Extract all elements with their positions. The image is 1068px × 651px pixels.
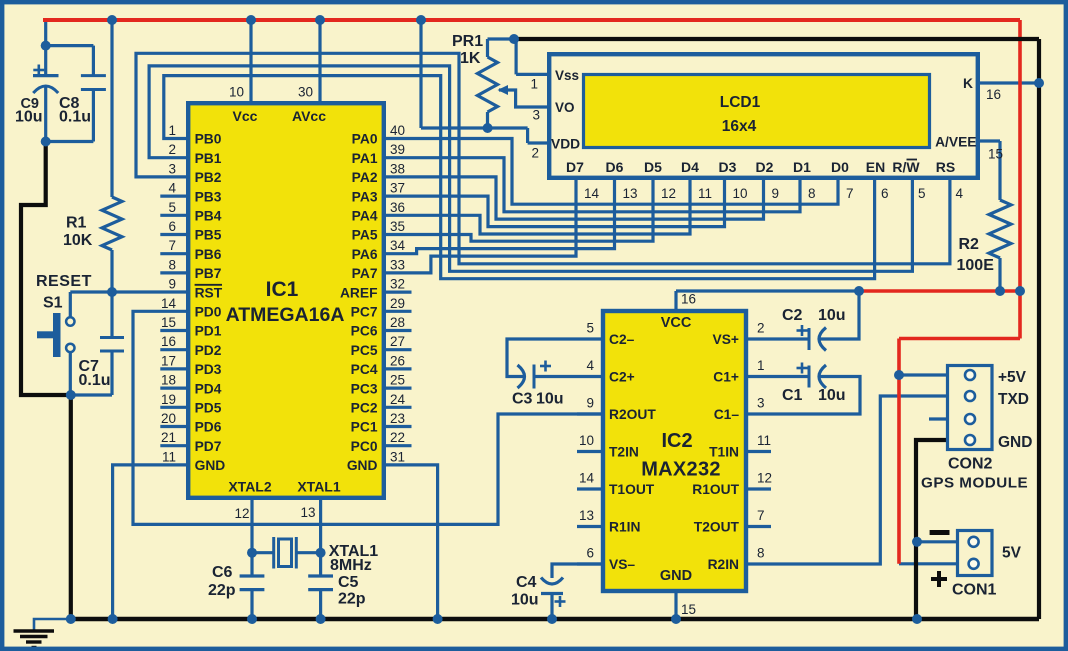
svg-text:16: 16 (161, 334, 176, 349)
svg-text:10u: 10u (818, 387, 846, 404)
svg-text:22p: 22p (208, 582, 236, 599)
svg-text:RS: RS (936, 159, 955, 175)
svg-text:11: 11 (698, 186, 712, 201)
svg-text:8MHz: 8MHz (330, 557, 372, 574)
svg-text:PA4: PA4 (352, 209, 378, 224)
svg-text:T2OUT: T2OUT (694, 520, 740, 535)
svg-text:PB7: PB7 (195, 266, 222, 281)
svg-text:10u: 10u (15, 109, 43, 126)
svg-text:10: 10 (733, 186, 748, 201)
svg-text:1: 1 (757, 358, 765, 373)
svg-text:6: 6 (168, 219, 176, 234)
svg-text:CON2: CON2 (948, 456, 993, 473)
svg-text:D4: D4 (681, 159, 699, 175)
svg-text:R2OUT: R2OUT (609, 407, 656, 422)
svg-text:D3: D3 (719, 159, 737, 175)
svg-text:R1OUT: R1OUT (692, 482, 739, 497)
svg-text:13: 13 (579, 508, 594, 523)
svg-text:A/VEE: A/VEE (935, 135, 976, 150)
svg-text:13: 13 (300, 505, 315, 520)
svg-text:XTAL2: XTAL2 (228, 479, 272, 495)
svg-text:2: 2 (757, 321, 765, 336)
svg-text:8: 8 (808, 186, 816, 201)
svg-text:PA2: PA2 (352, 170, 378, 185)
svg-text:5: 5 (918, 186, 926, 201)
svg-text:C4: C4 (516, 574, 537, 591)
svg-text:14: 14 (579, 471, 595, 486)
svg-text:IC1: IC1 (266, 278, 299, 301)
svg-text:38: 38 (390, 161, 405, 176)
svg-text:33: 33 (390, 257, 405, 272)
svg-text:14: 14 (161, 296, 177, 311)
svg-text:19: 19 (161, 392, 176, 407)
svg-text:PD6: PD6 (195, 420, 222, 435)
svg-text:PA7: PA7 (352, 266, 378, 281)
svg-text:10u: 10u (818, 307, 846, 324)
svg-text:PC1: PC1 (351, 420, 378, 435)
svg-text:D7: D7 (566, 159, 584, 175)
svg-text:1: 1 (168, 123, 176, 138)
svg-text:PA5: PA5 (352, 228, 378, 243)
svg-text:VS–: VS– (609, 557, 635, 572)
svg-text:CON1: CON1 (952, 582, 997, 599)
svg-text:16: 16 (681, 292, 696, 307)
svg-text:RESET: RESET (36, 273, 92, 290)
svg-text:4: 4 (168, 181, 176, 196)
svg-text:GND: GND (660, 568, 692, 584)
svg-text:K: K (963, 76, 973, 91)
svg-text:18: 18 (161, 373, 176, 388)
svg-text:S1: S1 (43, 295, 63, 312)
svg-text:PB4: PB4 (195, 209, 222, 224)
svg-text:26: 26 (390, 353, 405, 368)
svg-text:14: 14 (584, 186, 600, 201)
svg-text:30: 30 (298, 85, 313, 100)
svg-text:PB5: PB5 (195, 228, 222, 243)
svg-text:AREF: AREF (340, 285, 378, 300)
svg-text:ATMEGA16A: ATMEGA16A (226, 304, 345, 326)
svg-text:R/W: R/W (892, 159, 920, 175)
svg-text:35: 35 (390, 219, 405, 234)
svg-text:16: 16 (986, 87, 1001, 102)
svg-text:36: 36 (390, 200, 405, 215)
svg-text:1K: 1K (460, 50, 481, 67)
svg-text:7: 7 (757, 508, 765, 523)
svg-text:10: 10 (229, 85, 244, 100)
svg-text:EN: EN (866, 159, 885, 175)
svg-text:24: 24 (390, 392, 406, 407)
svg-text:PD5: PD5 (195, 401, 222, 416)
svg-text:C5: C5 (338, 574, 359, 591)
svg-text:7: 7 (168, 238, 176, 253)
svg-text:12: 12 (757, 471, 772, 486)
svg-text:9: 9 (586, 396, 594, 411)
svg-text:37: 37 (390, 181, 405, 196)
svg-text:C1: C1 (782, 387, 803, 404)
svg-text:D1: D1 (793, 159, 811, 175)
svg-text:PC0: PC0 (351, 439, 378, 454)
svg-text:GND: GND (347, 458, 378, 473)
svg-text:15: 15 (681, 602, 696, 617)
svg-text:C6: C6 (212, 564, 233, 581)
svg-text:D2: D2 (756, 159, 774, 175)
svg-text:10u: 10u (536, 391, 564, 408)
svg-text:16x4: 16x4 (722, 118, 757, 135)
svg-text:VCC: VCC (661, 315, 692, 331)
svg-text:9: 9 (168, 277, 176, 292)
svg-text:100E: 100E (957, 257, 995, 274)
svg-text:2: 2 (531, 146, 539, 161)
svg-text:1: 1 (530, 77, 538, 92)
svg-text:PD3: PD3 (195, 362, 222, 377)
svg-text:PD7: PD7 (195, 439, 222, 454)
svg-text:PA1: PA1 (352, 151, 378, 166)
svg-text:PC6: PC6 (351, 324, 378, 339)
svg-text:PD2: PD2 (195, 343, 222, 358)
svg-text:20: 20 (161, 411, 176, 426)
svg-text:+5V: +5V (998, 369, 1027, 386)
svg-text:C2: C2 (782, 307, 803, 324)
svg-text:T2IN: T2IN (609, 445, 639, 460)
svg-text:R2: R2 (959, 236, 980, 253)
svg-text:PC2: PC2 (351, 401, 378, 416)
svg-text:4: 4 (586, 358, 594, 373)
svg-text:7: 7 (846, 186, 854, 201)
svg-text:Vcc: Vcc (233, 108, 258, 124)
svg-text:GPS MODULE: GPS MODULE (921, 475, 1028, 492)
svg-text:VS+: VS+ (713, 332, 739, 347)
svg-text:XTAL1: XTAL1 (297, 479, 341, 495)
svg-text:8: 8 (757, 546, 765, 561)
svg-text:4: 4 (956, 186, 964, 201)
svg-text:AVcc: AVcc (292, 108, 326, 124)
svg-text:15: 15 (161, 315, 176, 330)
svg-text:PB6: PB6 (195, 247, 222, 262)
svg-text:C2–: C2– (609, 332, 635, 347)
svg-text:PA0: PA0 (352, 132, 378, 147)
svg-text:10: 10 (579, 433, 594, 448)
svg-text:3: 3 (757, 396, 765, 411)
svg-text:0.1u: 0.1u (79, 372, 111, 389)
svg-text:TXD: TXD (998, 391, 1029, 408)
svg-text:5: 5 (168, 200, 176, 215)
svg-text:21: 21 (161, 430, 176, 445)
svg-text:40: 40 (390, 123, 405, 138)
svg-text:D5: D5 (644, 159, 662, 175)
svg-text:R1: R1 (66, 215, 87, 232)
svg-text:PD1: PD1 (195, 324, 222, 339)
svg-text:C3: C3 (512, 391, 533, 408)
svg-text:34: 34 (390, 238, 406, 253)
svg-text:6: 6 (881, 186, 889, 201)
svg-text:VO: VO (555, 100, 575, 115)
svg-text:2: 2 (168, 142, 176, 157)
svg-text:Vss: Vss (555, 68, 579, 83)
svg-text:GND: GND (195, 458, 226, 473)
svg-text:D0: D0 (831, 159, 849, 175)
svg-text:9: 9 (772, 186, 780, 201)
svg-text:39: 39 (390, 142, 405, 157)
svg-text:PB2: PB2 (195, 170, 222, 185)
svg-text:PB0: PB0 (195, 132, 222, 147)
svg-text:D6: D6 (606, 159, 624, 175)
svg-text:5V: 5V (1002, 545, 1022, 562)
svg-text:C1–: C1– (714, 407, 740, 422)
svg-text:10K: 10K (63, 232, 93, 249)
svg-text:23: 23 (390, 411, 405, 426)
svg-text:PC7: PC7 (351, 305, 378, 320)
svg-text:T1OUT: T1OUT (609, 482, 655, 497)
svg-text:C2+: C2+ (609, 370, 635, 385)
svg-text:15: 15 (988, 147, 1003, 162)
svg-text:11: 11 (757, 433, 771, 448)
svg-text:PB1: PB1 (195, 151, 222, 166)
svg-text:29: 29 (390, 296, 405, 311)
svg-text:PD4: PD4 (195, 381, 222, 396)
svg-text:12: 12 (234, 506, 249, 521)
svg-text:PA6: PA6 (352, 247, 378, 262)
svg-text:10u: 10u (511, 592, 539, 609)
svg-text:PD0: PD0 (195, 305, 222, 320)
svg-text:PR1: PR1 (452, 33, 483, 50)
svg-text:PC5: PC5 (351, 343, 378, 358)
svg-text:PC4: PC4 (351, 362, 378, 377)
svg-text:5: 5 (586, 321, 594, 336)
svg-text:RST: RST (195, 285, 223, 300)
svg-text:25: 25 (390, 373, 405, 388)
svg-text:MAX232: MAX232 (641, 459, 721, 481)
svg-text:31: 31 (390, 449, 405, 464)
svg-text:11: 11 (162, 449, 176, 464)
svg-text:LCD1: LCD1 (720, 94, 761, 111)
svg-text:3: 3 (532, 108, 540, 123)
svg-text:PA3: PA3 (352, 189, 378, 204)
svg-text:0.1u: 0.1u (59, 109, 91, 126)
svg-text:3: 3 (168, 161, 176, 176)
svg-text:R2IN: R2IN (708, 557, 739, 572)
svg-text:PC3: PC3 (351, 381, 378, 396)
svg-text:22: 22 (390, 430, 405, 445)
svg-text:27: 27 (390, 334, 405, 349)
svg-text:VDD: VDD (551, 137, 580, 152)
svg-text:13: 13 (623, 186, 638, 201)
svg-text:R1IN: R1IN (609, 520, 640, 535)
svg-text:32: 32 (390, 277, 405, 292)
svg-text:28: 28 (390, 315, 405, 330)
svg-text:22p: 22p (338, 591, 366, 608)
svg-text:8: 8 (168, 257, 176, 272)
svg-text:GND: GND (998, 434, 1032, 451)
svg-text:PB3: PB3 (195, 189, 222, 204)
svg-text:17: 17 (161, 353, 176, 368)
svg-text:12: 12 (661, 186, 676, 201)
svg-text:6: 6 (586, 546, 594, 561)
svg-text:T1IN: T1IN (709, 445, 739, 460)
svg-text:C1+: C1+ (713, 370, 739, 385)
svg-text:IC2: IC2 (661, 430, 692, 452)
